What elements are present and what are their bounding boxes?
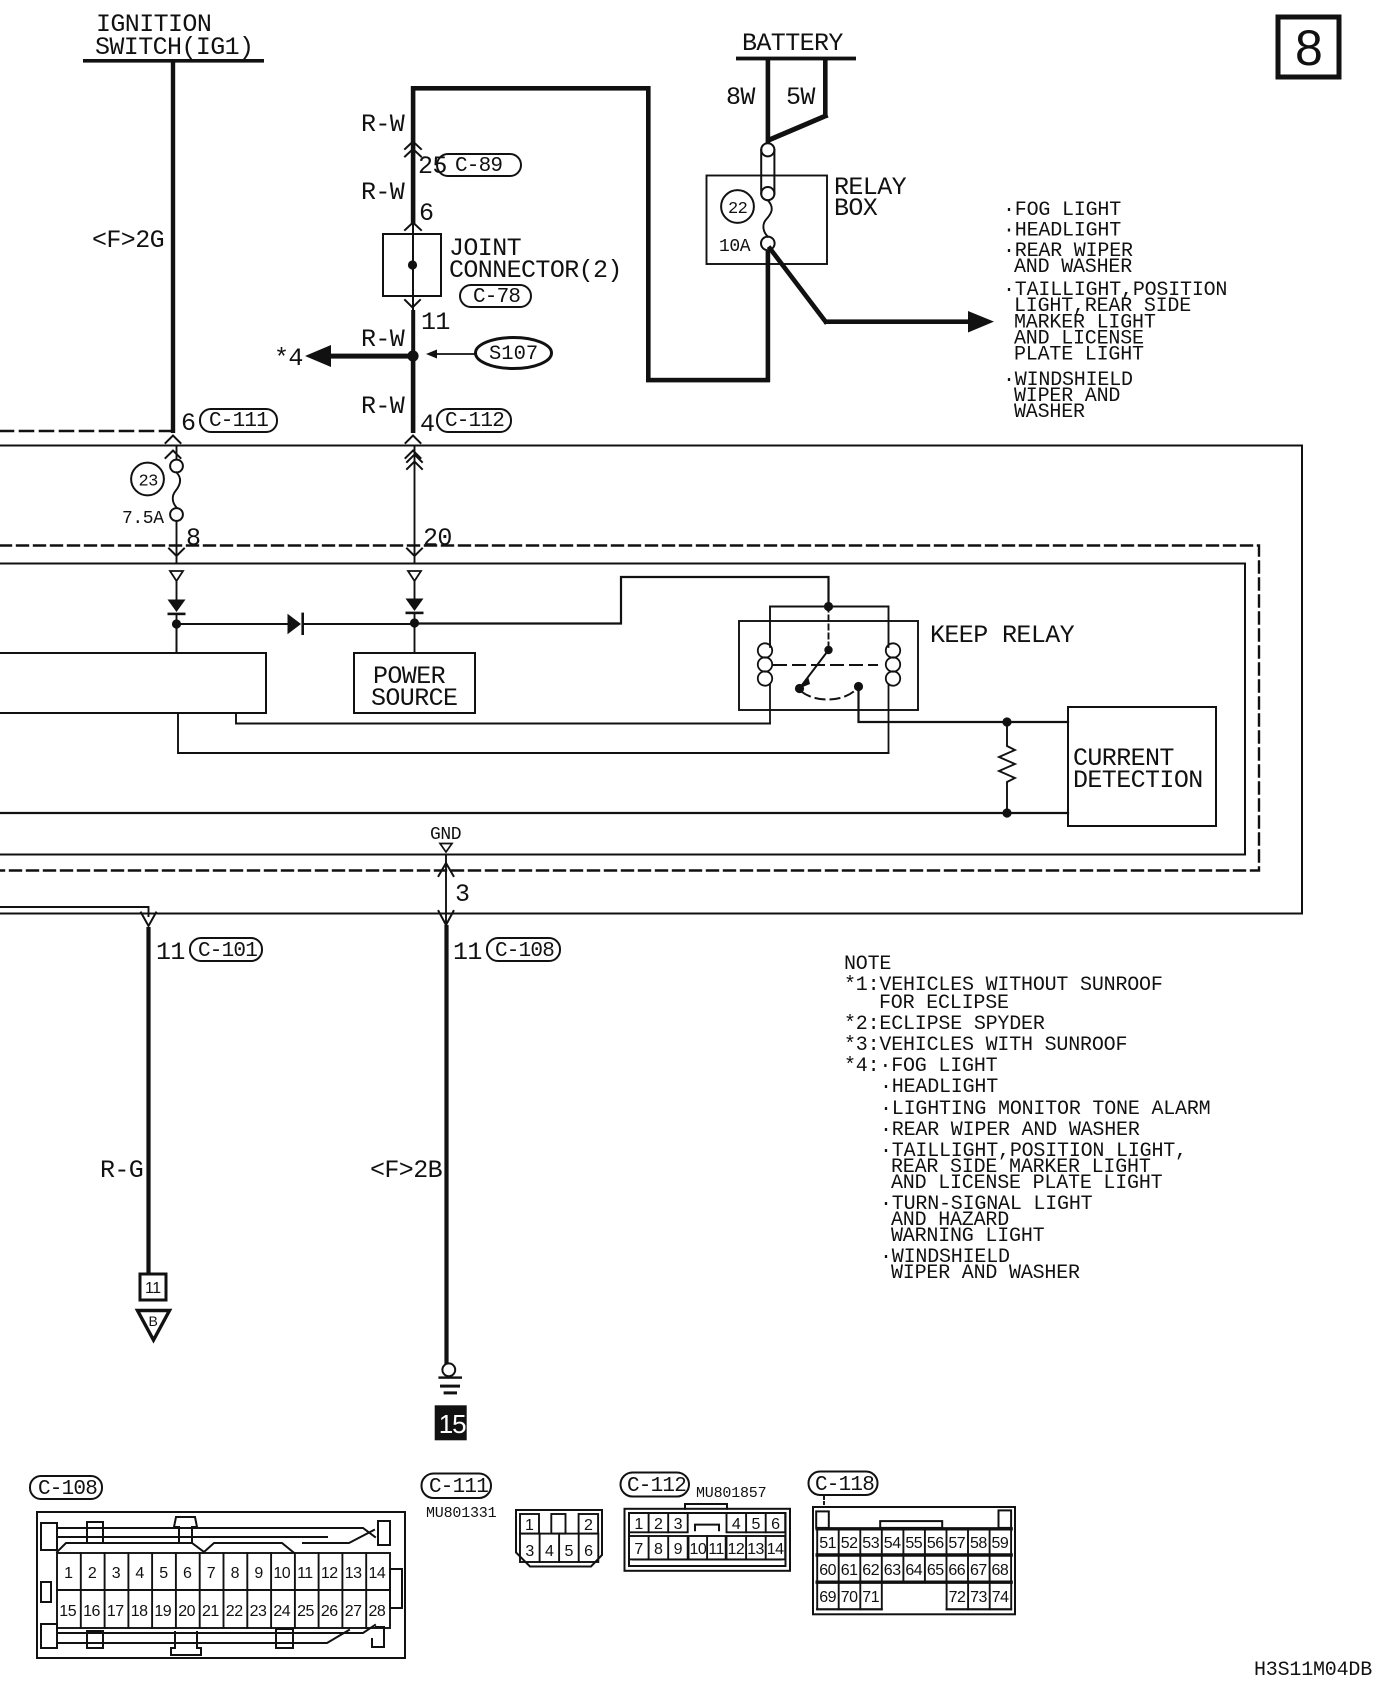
connector C-112 housing: [625, 1504, 791, 1571]
svg-text:7: 7: [207, 1565, 216, 1582]
svg-text:16: 16: [83, 1603, 100, 1620]
svg-text:3: 3: [525, 1543, 534, 1560]
node S107 junction dot: [407, 350, 418, 361]
svg-text:22: 22: [728, 200, 747, 219]
svg-text:7.5A: 7.5A: [122, 509, 164, 529]
wire exit left to C-101: [0, 907, 156, 926]
page number 8 box: [1278, 17, 1339, 77]
svg-text:S107: S107: [489, 343, 538, 366]
pin 6 of joint connector: [405, 199, 433, 230]
svg-text:14: 14: [369, 1565, 386, 1582]
svg-text:SWITCH(IG1): SWITCH(IG1): [95, 33, 253, 62]
connector C-118 pin grid: [817, 1529, 1011, 1610]
svg-text:9: 9: [254, 1565, 263, 1582]
svg-text:7: 7: [634, 1541, 643, 1558]
svg-text:2: 2: [88, 1565, 97, 1582]
svg-text:19: 19: [154, 1603, 171, 1620]
svg-text:AND WASHER: AND WASHER: [1014, 256, 1132, 279]
svg-text:22: 22: [226, 1603, 243, 1620]
svg-text:2: 2: [654, 1516, 663, 1533]
svg-text:WASHER: WASHER: [1014, 401, 1085, 424]
svg-text:DETECTION: DETECTION: [1073, 766, 1203, 795]
dashed connector line top left: [0, 430, 173, 433]
connector C-108 housing: [37, 1512, 405, 1658]
svg-text:57: 57: [948, 1535, 965, 1552]
wire left box to left coil: [236, 713, 770, 724]
svg-text:B: B: [149, 1313, 158, 1329]
pin 6 label and C-111 connector stadium: [181, 409, 277, 438]
svg-text:27: 27: [345, 1603, 362, 1620]
svg-text:15: 15: [439, 1409, 466, 1439]
svg-text:23: 23: [250, 1603, 267, 1620]
wire node A to node B with diode D3: [177, 613, 415, 635]
keep relay box: [739, 621, 1075, 710]
svg-text:12: 12: [728, 1541, 745, 1558]
wire fuse to ECU pin 8: [169, 521, 200, 563]
svg-text:10A: 10A: [719, 237, 751, 257]
ground ref 15 black box: [435, 1405, 467, 1440]
ground ref triangle B: [138, 1311, 170, 1341]
pin 25 label and C-89 stadium: [418, 152, 521, 181]
svg-text:C-112: C-112: [445, 410, 504, 433]
svg-text:4: 4: [732, 1516, 741, 1533]
resistor node top: [1002, 717, 1011, 726]
svg-text:52: 52: [841, 1535, 858, 1552]
svg-text:3: 3: [455, 880, 469, 909]
thick arrow to *4: [274, 344, 413, 373]
power source box: [354, 653, 475, 713]
svg-text:MU801331: MU801331: [426, 1505, 497, 1522]
connector C-111 stadium label: [422, 1474, 492, 1500]
svg-text:C-101: C-101: [198, 940, 257, 963]
svg-text:8: 8: [231, 1565, 240, 1582]
svg-text:4: 4: [135, 1565, 144, 1582]
svg-text:*4: *4: [274, 344, 303, 373]
svg-text:12: 12: [321, 1565, 338, 1582]
svg-text:8W: 8W: [726, 83, 755, 112]
keep relay node dot: [824, 602, 833, 611]
svg-text:71: 71: [862, 1589, 879, 1606]
svg-text:C-111: C-111: [429, 1476, 488, 1499]
left logic box (cut off): [0, 653, 266, 713]
svg-text:C-108: C-108: [38, 1478, 97, 1501]
connector pin chevrons C-111: [166, 436, 181, 459]
wire 8W from battery: [726, 60, 770, 143]
resistor node bottom: [1002, 808, 1011, 817]
fuse 22 circled number: [721, 190, 754, 223]
keep relay coil feed wires: [770, 607, 889, 645]
wire 5W from battery: [769, 60, 828, 140]
svg-text:6: 6: [584, 1543, 593, 1560]
connector C-118 stadium label: [809, 1472, 878, 1498]
GND wire pin 3: [439, 855, 470, 926]
svg-text:3: 3: [112, 1565, 121, 1582]
svg-text:4: 4: [420, 410, 434, 439]
fuse element 7.5A: [122, 446, 183, 529]
svg-text:R-W: R-W: [361, 110, 405, 139]
svg-text:·LIGHTING MONITOR TONE ALARM: ·LIGHTING MONITOR TONE ALARM: [880, 1098, 1210, 1121]
svg-text:R-G: R-G: [100, 1156, 143, 1185]
svg-text:*2:ECLIPSE SPYDER: *2:ECLIPSE SPYDER: [844, 1013, 1045, 1036]
svg-text:74: 74: [992, 1589, 1009, 1606]
svg-text:55: 55: [905, 1535, 922, 1552]
svg-text:R-W: R-W: [361, 392, 405, 421]
pin 4 label and C-112 stadium: [420, 409, 511, 439]
svg-text:10: 10: [273, 1565, 290, 1582]
svg-text:C-111: C-111: [209, 410, 268, 433]
svg-text:8: 8: [1295, 20, 1323, 76]
svg-text:GND: GND: [430, 825, 461, 845]
svg-text:60: 60: [819, 1562, 836, 1579]
svg-text:69: 69: [819, 1589, 836, 1606]
wire R-G down to ground B: [100, 927, 262, 1274]
svg-text:<F>2B: <F>2B: [370, 1156, 443, 1185]
keep relay right coil: [886, 643, 900, 753]
load list bullet text: [1003, 199, 1227, 424]
svg-text:C-112: C-112: [627, 1475, 686, 1498]
svg-text:14: 14: [767, 1541, 784, 1558]
svg-text:54: 54: [884, 1535, 901, 1552]
svg-text:11: 11: [297, 1565, 313, 1582]
fusible link capsule: [761, 143, 774, 200]
svg-text:6: 6: [419, 199, 433, 228]
svg-text:23: 23: [139, 473, 159, 492]
svg-text:BOX: BOX: [834, 194, 878, 223]
note text block: [844, 953, 1210, 1285]
svg-text:*3:VEHICLES WITH SUNROOF: *3:VEHICLES WITH SUNROOF: [844, 1034, 1127, 1057]
wire node A down to left logic box: [176, 624, 178, 653]
svg-text:63: 63: [884, 1562, 901, 1579]
svg-text:PLATE LIGHT: PLATE LIGHT: [1014, 344, 1144, 367]
svg-text:6: 6: [183, 1565, 192, 1582]
svg-text:C-78: C-78: [473, 286, 520, 309]
svg-text:MU801857: MU801857: [696, 1485, 766, 1502]
node A junction dot: [172, 619, 181, 628]
wire node B to keep relay top: [415, 577, 829, 624]
svg-text:61: 61: [841, 1562, 858, 1579]
svg-text:·REAR WIPER AND WASHER: ·REAR WIPER AND WASHER: [880, 1119, 1140, 1142]
svg-text:8: 8: [654, 1541, 663, 1558]
svg-text:11: 11: [708, 1541, 724, 1558]
ECU pin triangle (right input): [408, 571, 421, 581]
terminal 11 box: [140, 1274, 166, 1300]
svg-text:6: 6: [181, 409, 195, 438]
svg-text:11: 11: [453, 938, 482, 967]
svg-text:NOTE: NOTE: [844, 953, 891, 976]
svg-text:C-108: C-108: [495, 940, 554, 963]
svg-text:KEEP RELAY: KEEP RELAY: [930, 621, 1075, 650]
keep relay dashed link: [774, 664, 877, 666]
GND pin label: [430, 825, 461, 852]
svg-text:56: 56: [927, 1535, 944, 1552]
svg-text:1: 1: [64, 1565, 73, 1582]
svg-text:13: 13: [345, 1565, 362, 1582]
svg-text:20: 20: [178, 1603, 195, 1620]
wire left box to right coil: [178, 713, 889, 753]
svg-text:C-89: C-89: [455, 155, 502, 178]
svg-text:5: 5: [752, 1516, 761, 1533]
svg-text:59: 59: [992, 1535, 1009, 1552]
svg-text:67: 67: [970, 1562, 987, 1579]
svg-text:5: 5: [159, 1565, 168, 1582]
svg-text:H3S11M04DB: H3S11M04DB: [1254, 1659, 1372, 1682]
connector pin chevrons C-112: [406, 436, 421, 459]
svg-text:15: 15: [59, 1603, 76, 1620]
svg-text:68: 68: [992, 1562, 1009, 1579]
svg-text:13: 13: [747, 1541, 764, 1558]
svg-text:65: 65: [927, 1562, 944, 1579]
fuse element 10A: [719, 200, 775, 257]
thick R-W bus wire: top horizontal, right leg, bottom leg, riser to relay box: [411, 86, 770, 382]
svg-text:WIPER AND WASHER: WIPER AND WASHER: [891, 1262, 1080, 1285]
wire node B down to power source: [414, 623, 416, 653]
svg-text:24: 24: [273, 1603, 290, 1620]
keep relay left coil: [758, 643, 772, 723]
ETACS dashed box: [0, 546, 1259, 871]
svg-text:·HEADLIGHT: ·HEADLIGHT: [880, 1076, 998, 1099]
wire keep relay switch to current detection: [859, 687, 1069, 723]
junction block outer box: [0, 446, 1302, 914]
svg-text:66: 66: [948, 1562, 965, 1579]
svg-text:11: 11: [145, 1280, 161, 1297]
svg-text:11: 11: [421, 308, 450, 337]
svg-text:2: 2: [584, 1517, 593, 1534]
svg-text:21: 21: [202, 1603, 219, 1620]
connector C-112 stadium label: [621, 1473, 690, 1499]
ground rail wire: [0, 812, 1068, 814]
diode D2: [406, 581, 424, 623]
svg-text:20: 20: [423, 524, 452, 553]
connector C-108 pin grid: [57, 1553, 390, 1628]
svg-text:70: 70: [841, 1589, 858, 1606]
ECU pin triangle (left input): [170, 571, 183, 581]
svg-text:62: 62: [862, 1562, 879, 1579]
svg-text:FOR ECLIPSE: FOR ECLIPSE: [879, 992, 1009, 1015]
svg-text:C-118: C-118: [815, 1474, 874, 1497]
wire (F)2B down to ground 15: [370, 914, 560, 1365]
svg-text:73: 73: [970, 1589, 987, 1606]
svg-text:AND LICENSE PLATE LIGHT: AND LICENSE PLATE LIGHT: [891, 1172, 1163, 1195]
relay box: [707, 173, 907, 264]
svg-text:WARNING LIGHT: WARNING LIGHT: [891, 1225, 1045, 1248]
svg-text:5: 5: [565, 1543, 574, 1560]
svg-text:SOURCE: SOURCE: [371, 684, 457, 713]
connector C-118 housing: [813, 1507, 1015, 1614]
svg-text:58: 58: [970, 1535, 987, 1552]
svg-text:8: 8: [186, 524, 200, 553]
svg-text:R-W: R-W: [361, 178, 405, 207]
resistor R: [999, 722, 1015, 813]
diode D1: [168, 581, 186, 624]
svg-text:4: 4: [545, 1543, 554, 1560]
fuse 23 circled number: [131, 463, 164, 496]
node B junction dot: [410, 618, 419, 627]
keep relay switch: [795, 607, 863, 700]
svg-text:11: 11: [156, 938, 185, 967]
svg-text:51: 51: [819, 1535, 836, 1552]
leader dots C-118: [823, 1497, 825, 1507]
svg-text:28: 28: [369, 1603, 386, 1620]
svg-text:1: 1: [525, 1517, 534, 1534]
svg-text:9: 9: [674, 1541, 683, 1558]
wire ignition to C-111 (F)2G: [92, 62, 175, 433]
svg-text:CONNECTOR(2): CONNECTOR(2): [449, 256, 622, 285]
svg-text:10: 10: [690, 1541, 707, 1558]
svg-text:64: 64: [905, 1562, 922, 1579]
battery label and bus bar: [736, 29, 856, 60]
arrow from fuse to load list: [770, 249, 994, 333]
svg-text:1: 1: [634, 1516, 643, 1533]
ignition switch IG1 label: [83, 10, 264, 63]
svg-text:17: 17: [107, 1603, 124, 1620]
svg-text:26: 26: [321, 1603, 338, 1620]
connector C-89 crossing chevrons: [405, 142, 421, 157]
svg-text:BATTERY: BATTERY: [742, 29, 843, 58]
svg-text:<F>2G: <F>2G: [92, 226, 164, 255]
ETACS inner solid box: [0, 564, 1245, 855]
connector C-111 housing: [516, 1510, 602, 1567]
svg-text:3: 3: [674, 1516, 683, 1533]
svg-text:53: 53: [862, 1535, 879, 1552]
connector C-108 stadium label: [30, 1476, 102, 1501]
wire C-112 pin 4 to ECU pin 20: [407, 446, 452, 563]
pin 11 below joint connector: [405, 300, 450, 337]
svg-text:5W: 5W: [786, 83, 815, 112]
current detection box: [1068, 707, 1216, 826]
joint connector C-78 box: [383, 234, 622, 309]
svg-text:*4:·FOG LIGHT: *4:·FOG LIGHT: [844, 1055, 998, 1078]
ground symbol: [438, 1363, 462, 1394]
svg-text:R-W: R-W: [361, 325, 405, 354]
svg-text:18: 18: [131, 1603, 148, 1620]
S107 splice label and pointer arrow: [426, 338, 552, 369]
svg-text:6: 6: [771, 1516, 780, 1533]
svg-text:25: 25: [297, 1603, 314, 1620]
wire R-W vertical C-89 to C-112: [411, 86, 416, 433]
svg-text:72: 72: [949, 1589, 966, 1606]
